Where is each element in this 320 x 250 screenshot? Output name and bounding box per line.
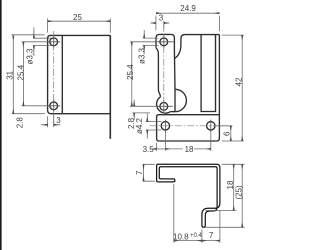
dim o4.2 flange hole xyxy=(146,113,162,138)
crosshair hole top xyxy=(47,36,60,113)
profile outline outer+inner xyxy=(157,164,220,227)
crosshairs view2 holes xyxy=(158,35,211,132)
svg-text:ø3.3: ø3.3 xyxy=(26,48,35,65)
svg-text:6: 6 xyxy=(223,131,232,136)
dim 2.8 view2 xyxy=(132,100,150,120)
flange left and bottom xyxy=(157,117,217,141)
dim o3.3 view2 xyxy=(143,30,159,54)
dim 24.9 top xyxy=(156,13,220,31)
dim o3.3 hole xyxy=(33,28,51,57)
D-bulge arc xyxy=(175,89,186,111)
centerline flange holes xyxy=(150,125,225,127)
dim 6 flange xyxy=(216,126,233,141)
bend line inner vertical xyxy=(61,35,63,113)
svg-text:(25): (25) xyxy=(234,185,243,200)
dim (25) profile right xyxy=(206,164,245,227)
crosshair hole bottom xyxy=(47,100,60,113)
bend edge to chord xyxy=(171,111,176,113)
right portion top-left corner and U notch xyxy=(175,35,185,59)
svg-text:+0.4: +0.4 xyxy=(190,233,203,239)
lobe hole top xyxy=(160,38,168,46)
mid lobe arc xyxy=(157,97,171,113)
bend line / chord xyxy=(174,89,176,111)
svg-text:3.5: 3.5 xyxy=(143,145,155,154)
svg-text:3: 3 xyxy=(56,116,61,125)
flange hole left xyxy=(161,122,169,130)
flange top edge xyxy=(157,115,220,117)
top lobe outline xyxy=(156,34,175,89)
dim 3.5 and 18 flange bottom xyxy=(150,132,211,151)
svg-text:25.4: 25.4 xyxy=(16,64,25,80)
lobe hole mid xyxy=(160,102,168,110)
svg-text:10.8: 10.8 xyxy=(173,232,189,241)
dim 18 profile right xyxy=(206,164,245,210)
svg-text:7: 7 xyxy=(209,231,214,240)
right edge tab extending below xyxy=(109,35,111,138)
svg-text:25: 25 xyxy=(73,13,82,22)
dim 42 right xyxy=(222,35,244,141)
svg-text:7: 7 xyxy=(135,170,144,175)
svg-text:3: 3 xyxy=(159,14,164,23)
centerline vertical xyxy=(53,31,55,128)
dim 10.8+0.4 and 7 bottom xyxy=(174,184,220,243)
frame border left xyxy=(0,0,2,250)
svg-text:18: 18 xyxy=(185,145,194,154)
dim 25.4 view2 xyxy=(130,42,159,107)
svg-text:25.4: 25.4 xyxy=(126,64,135,80)
hole bottom xyxy=(50,102,58,110)
plate outline xyxy=(48,35,111,138)
dim 25.4 left xyxy=(22,42,49,106)
top edge xyxy=(185,34,219,36)
svg-text:42: 42 xyxy=(235,77,244,86)
svg-text:24.9: 24.9 xyxy=(180,4,196,13)
dim 25 top xyxy=(48,18,111,32)
flange hole right xyxy=(207,122,215,130)
dim 3 top xyxy=(151,21,170,30)
svg-text:ø3.3: ø3.3 xyxy=(137,47,146,64)
right edge down to flange corner xyxy=(216,35,219,141)
dim 31 left xyxy=(12,35,45,114)
dim 3 bottom xyxy=(41,114,61,127)
hole top xyxy=(50,38,58,46)
svg-text:2.8: 2.8 xyxy=(15,117,24,129)
neck left edge with ogee transitions xyxy=(156,48,161,97)
slot rectangle xyxy=(201,35,215,112)
svg-text:ø4.2: ø4.2 xyxy=(135,117,144,134)
centerline vertical view2 xyxy=(163,21,165,118)
dim 7 profile left xyxy=(143,164,155,181)
svg-text:31: 31 xyxy=(6,70,15,79)
